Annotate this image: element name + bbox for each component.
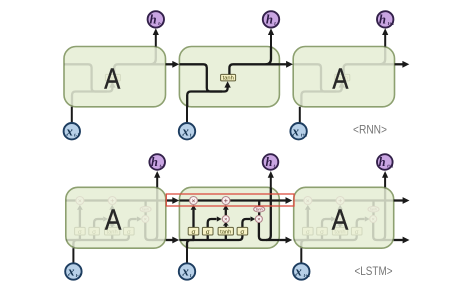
svg-text:x: x bbox=[294, 264, 302, 279]
node h t (LSTM) bbox=[263, 154, 279, 170]
node x t (LSTM) bbox=[179, 263, 195, 279]
wire x t+1 input stem (RNN right) bbox=[299, 107, 301, 123]
node h t (RNN) bbox=[263, 11, 279, 27]
faint internals RNN left bbox=[64, 46, 164, 107]
svg-text:h: h bbox=[149, 12, 156, 26]
svg-text:A: A bbox=[105, 204, 122, 236]
wire h t+1 output stem (RNN right) bbox=[384, 35, 386, 47]
svg-text:t-1: t-1 bbox=[76, 274, 82, 279]
node x t-1 (LSTM) bbox=[65, 263, 81, 279]
cell A1 (RNN left) bbox=[64, 47, 166, 107]
svg-text:A: A bbox=[332, 64, 349, 96]
wire C connector LSTM cell2 to cell3 bbox=[279, 199, 286, 201]
red highlight box over cell state line bbox=[166, 194, 294, 206]
faint internals RNN right bbox=[294, 46, 394, 107]
node x t+1 (LSTM) bbox=[293, 263, 309, 279]
faint internals LSTM left bbox=[66, 187, 166, 248]
svg-text:t+1: t+1 bbox=[387, 164, 393, 169]
svg-text:h: h bbox=[379, 12, 386, 26]
wire h t-1 output stem (RNN left) bbox=[155, 35, 157, 47]
wire x t-1 input stem (LSTM left) bbox=[72, 248, 74, 263]
wire C output LSTM cell3 right bbox=[394, 199, 403, 201]
internals RNN middle bbox=[179, 46, 279, 107]
wire connector RNN cell1 to cell2 bbox=[166, 63, 173, 65]
wire h t output stem (LSTM middle) bbox=[270, 177, 272, 187]
svg-text:<LSTM>: <LSTM> bbox=[355, 264, 393, 278]
svg-text:t-1: t-1 bbox=[158, 22, 164, 27]
svg-text:t-1: t-1 bbox=[160, 164, 165, 169]
wire h t+1 output stem (LSTM right) bbox=[384, 177, 386, 187]
wire connector RNN cell2 to cell3 bbox=[279, 63, 286, 65]
svg-text:h: h bbox=[151, 155, 158, 169]
svg-text:h: h bbox=[266, 12, 273, 26]
svg-text:x: x bbox=[67, 264, 75, 279]
faint internals LSTM right bbox=[294, 187, 394, 248]
node h t+1 (LSTM) bbox=[377, 154, 393, 170]
wire h t output stem (RNN middle) bbox=[270, 35, 272, 47]
svg-text:A: A bbox=[104, 64, 121, 96]
svg-text:A: A bbox=[332, 204, 349, 236]
wire x t-1 input stem (RNN left) bbox=[71, 107, 73, 123]
node h t+1 (RNN) bbox=[377, 11, 393, 27]
wire x t+1 input stem (LSTM right) bbox=[300, 248, 302, 263]
internals LSTM middle bbox=[179, 187, 279, 248]
node x t (RNN) bbox=[179, 123, 195, 139]
node x t-1 (RNN) bbox=[64, 123, 80, 139]
svg-text:x: x bbox=[65, 123, 73, 138]
wire h connector LSTM cell2 to cell3 bbox=[279, 239, 286, 241]
node x t+1 (RNN) bbox=[290, 123, 306, 139]
svg-text:t-1: t-1 bbox=[74, 134, 80, 139]
svg-text:h: h bbox=[266, 155, 273, 169]
wire h t-1 output stem (LSTM left) bbox=[156, 177, 158, 187]
wire RNN cell3 output right bbox=[395, 63, 403, 65]
cell A2 (RNN middle) bbox=[179, 47, 279, 107]
svg-text:t+1: t+1 bbox=[388, 22, 395, 27]
svg-text:t+1: t+1 bbox=[301, 134, 308, 139]
cell A3 (LSTM right) bbox=[294, 187, 394, 248]
cell A3 (RNN right) bbox=[293, 47, 394, 107]
wire h connector LSTM cell1 to cell2 bbox=[166, 239, 173, 241]
svg-text:x: x bbox=[181, 264, 189, 279]
cell A1 (LSTM left) bbox=[66, 187, 166, 248]
svg-text:x: x bbox=[292, 123, 300, 138]
wire h output LSTM cell3 right bbox=[394, 239, 403, 241]
node h t-1 (LSTM) bbox=[149, 154, 165, 170]
cell A2 (LSTM middle) bbox=[179, 187, 279, 248]
svg-text:h: h bbox=[379, 155, 386, 169]
wire C connector LSTM cell1 to cell2 bbox=[166, 199, 173, 201]
svg-text:<RNN>: <RNN> bbox=[353, 123, 387, 137]
svg-text:x: x bbox=[181, 123, 189, 138]
node h t-1 (RNN) bbox=[148, 11, 164, 27]
wire x t input stem (RNN middle) bbox=[186, 107, 188, 123]
svg-text:t+1: t+1 bbox=[304, 274, 311, 279]
wire x t input stem (LSTM middle) bbox=[186, 248, 188, 263]
